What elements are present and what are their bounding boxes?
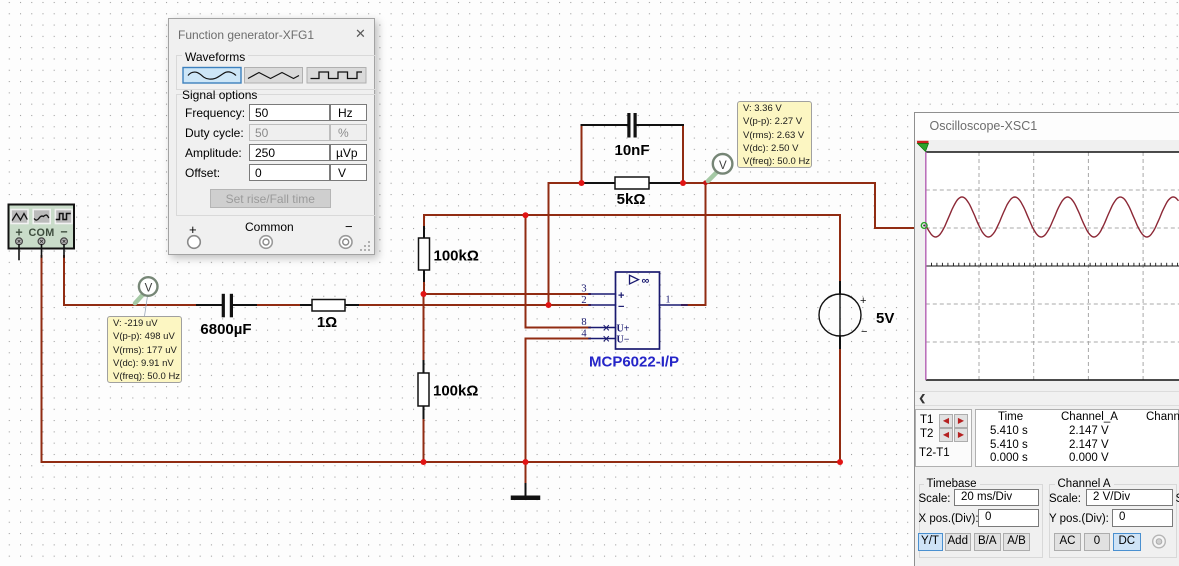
time axis with ticks [925, 265, 1178, 267]
svg-text:U−: U− [617, 335, 630, 346]
voltage source V1 5V [819, 282, 894, 348]
probe PR1 input [135, 277, 158, 316]
pin 8 lead [589, 327, 616, 329]
svg-text:2: 2 [581, 295, 586, 306]
wire: op-amp U- supply pin to ground rail [526, 339, 591, 463]
pin 2 lead [589, 304, 616, 306]
svg-text:−: − [861, 326, 867, 338]
resistor R3 1ohm [301, 300, 358, 332]
junction: feedback right node [680, 180, 686, 186]
resistor R2 100k bottom [418, 361, 478, 418]
channel A trace [926, 197, 1179, 237]
pin 4 lead [589, 338, 616, 340]
svg-text:V: V [719, 160, 727, 172]
rows [185, 106, 245, 120]
op-amp U1 MCP6022 [581, 272, 687, 371]
wire: C1 to R3 segment [256, 304, 301, 306]
scrollbar [915, 391, 1179, 406]
pin 3 lead [589, 293, 616, 295]
wire: divider midpoint to op-amp non-inverting input [423, 293, 590, 295]
wire: feedback node vertical to inverting input [548, 183, 550, 305]
wire: R1 bottom to divider midpoint node [423, 281, 425, 294]
windows layer [0, 0, 1179, 1]
pin + [16, 238, 23, 260]
probe tooltip PR1 readings [107, 316, 182, 384]
wire: C2 right vertical riser [682, 125, 684, 183]
set rise/fall button [210, 189, 331, 209]
cursor handle [917, 141, 929, 144]
svg-text:5kΩ: 5kΩ [617, 191, 646, 208]
wire: V1 minus terminal down to ground rail [839, 348, 841, 462]
no-connect x marks [604, 326, 609, 331]
wire: 5V rail tap down to op-amp U+ supply pin [526, 215, 591, 328]
wire: function generator minus pin down and right to C1 [64, 256, 197, 305]
wire: R4 right to output node and to oscilloscope [683, 183, 914, 228]
svg-text:10nF: 10nF [614, 142, 649, 159]
wire: R2 bottom to ground rail [423, 418, 425, 462]
function generator XFG1 symbol [9, 205, 75, 260]
T1 cursor [924, 152, 926, 380]
svg-text:+: + [860, 295, 866, 307]
svg-text:100kΩ: 100kΩ [433, 383, 478, 400]
wire: function generator COM pin down to ground rail [41, 256, 43, 462]
resistor R4 5k [582, 177, 684, 208]
screen [915, 113, 1179, 564]
bottom terminals [189, 222, 197, 237]
wire: divider midpoint down to R2 top [423, 294, 425, 361]
svg-text:COM: COM [28, 227, 54, 239]
capacitor C2 10nF [582, 113, 684, 159]
svg-text:∞: ∞ [642, 275, 650, 287]
pin 1 output lead [660, 304, 688, 306]
waveform buttons [169, 19, 376, 256]
svg-text:3: 3 [581, 284, 586, 295]
svg-text:MCP6022-I/P: MCP6022-I/P [589, 354, 679, 371]
svg-text:6800µF: 6800µF [200, 321, 251, 338]
wire: ground branch stub [525, 462, 527, 484]
junction: V1 / ground rail [837, 459, 843, 465]
wire: feedback node to R4 left [549, 182, 583, 184]
svg-text:1: 1 [665, 295, 670, 306]
cursor readout panel [915, 409, 972, 467]
wire: output node vertical down to op-amp output [682, 183, 706, 305]
svg-text:1Ω: 1Ω [317, 314, 337, 331]
junction: feedback left node [579, 180, 585, 186]
capacitor C1 6800uF [197, 294, 256, 338]
svg-text:−: − [618, 301, 624, 313]
junction: R2 / ground rail [421, 459, 427, 465]
wire: ground rail bottom horizontal [42, 461, 841, 463]
Waveforms group [176, 55, 377, 90]
wire: C2 left vertical riser [581, 125, 583, 183]
channel ref marker [921, 223, 927, 229]
junction: feedback / inverting input [546, 302, 552, 308]
Timebase group [919, 484, 1043, 558]
svg-text:−: − [60, 225, 67, 239]
wire: R3 to op-amp inverting input [358, 304, 590, 306]
svg-text:8: 8 [581, 317, 586, 328]
junction: divider midpoint [421, 291, 427, 297]
svg-text:V: V [145, 283, 153, 295]
pin minus [61, 238, 68, 257]
svg-text:4: 4 [581, 329, 587, 340]
wire: 5V rail horizontal [424, 214, 840, 216]
probe PR2 output [708, 154, 732, 181]
junction: ground symbol / ground rail [523, 459, 529, 465]
dashed grid verticals [979, 152, 1143, 380]
oscilloscope window XSC1 [914, 112, 1179, 566]
ground [513, 484, 538, 498]
svg-text:5V: 5V [876, 310, 894, 327]
title bar [915, 113, 1179, 140]
svg-text:100kΩ: 100kΩ [434, 248, 479, 265]
wire: 5V rail corner down to R1 top [423, 215, 425, 227]
pin COM [38, 238, 45, 257]
title bar [178, 28, 348, 44]
wire: 5V rail down to V1 plus terminal [839, 215, 841, 282]
junction: 5V rail / U+ tap [523, 212, 529, 218]
svg-text:U+: U+ [617, 324, 630, 335]
Channel A group [1049, 484, 1177, 558]
junction: probe attach output [703, 180, 708, 185]
plot area [917, 141, 1179, 380]
dashed grid horizontals [925, 190, 1178, 342]
function generator dialog XFG1 [168, 18, 375, 255]
probe tooltip PR2 readings [737, 101, 813, 169]
resistor R1 100k top [419, 227, 479, 281]
clipped channel B scale letter [1176, 493, 1179, 505]
top and bottom screen border [925, 151, 1178, 153]
